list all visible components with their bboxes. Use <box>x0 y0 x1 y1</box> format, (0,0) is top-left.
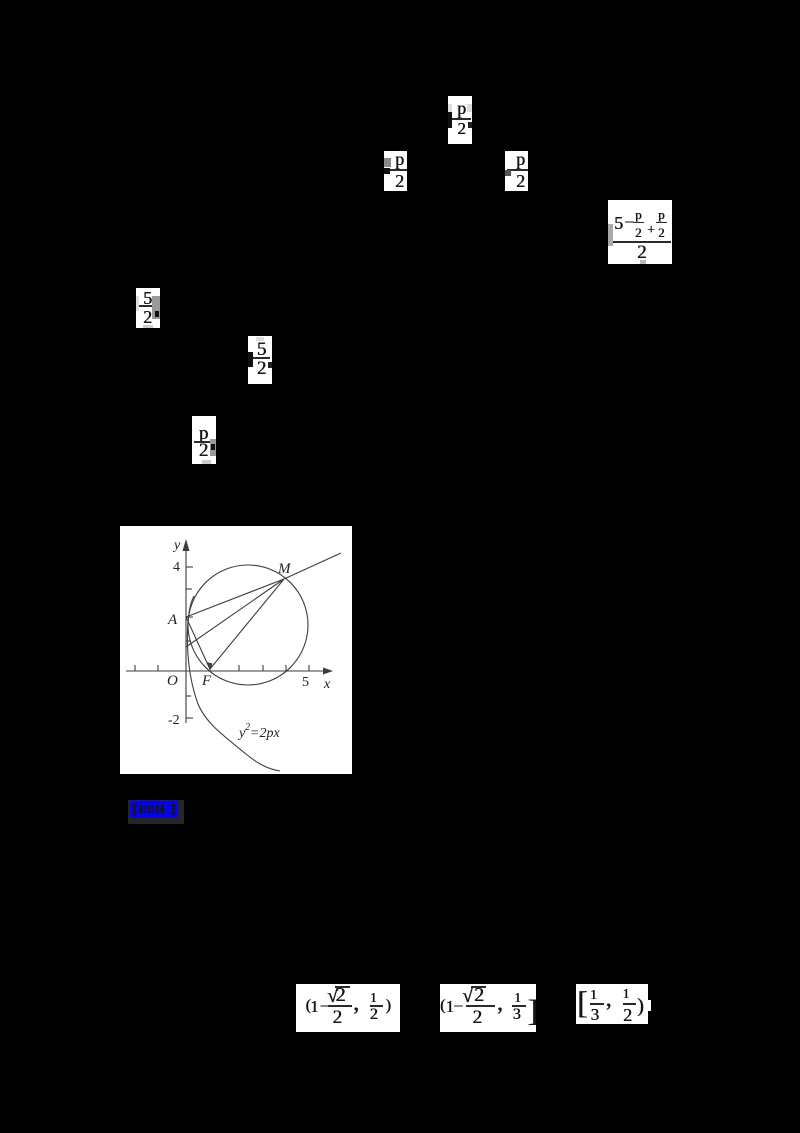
blue label <box>128 800 184 824</box>
svg-text:5: 5 <box>302 675 309 690</box>
fraction box p/2 (top) <box>448 96 472 144</box>
line F-M <box>210 579 284 669</box>
line (0,?) - M <box>186 579 284 647</box>
svg-text:F: F <box>201 673 212 689</box>
svg-text:x: x <box>323 677 331 692</box>
arrowheads <box>183 539 190 551</box>
fraction box 5/2 (second) <box>248 336 272 384</box>
sliver right of box 3 <box>648 1000 651 1011</box>
svg-text:M: M <box>277 561 292 577</box>
line A-F <box>186 617 209 667</box>
fraction box p/2 (lower) <box>192 416 216 464</box>
svg-text:=2px: =2px <box>250 726 280 741</box>
fraction box p/2 (right of pair) <box>505 151 528 191</box>
svg-text:O: O <box>167 673 178 689</box>
svg-text:4: 4 <box>173 560 180 575</box>
x ticks <box>134 665 136 671</box>
parabola <box>187 596 280 771</box>
bottom box 3: [1/3, 1/2) <box>576 984 648 1024</box>
x axis <box>126 670 331 672</box>
svg-text:-2: -2 <box>168 713 180 728</box>
fraction box p/2 (left of pair) <box>384 151 407 191</box>
ray M to corner <box>284 553 341 579</box>
fraction box 5/2 <box>136 288 160 328</box>
labels <box>167 538 331 741</box>
line A-M <box>186 579 284 617</box>
circle <box>188 565 308 685</box>
big fraction (5-p/2+p/2)/2 <box>608 200 672 264</box>
y axis <box>185 544 187 723</box>
bottom box 2: (1-sqrt2/2, 1/3] <box>440 984 536 1032</box>
bottom box 1: (1-sqrt2/2, 1/2) <box>296 984 400 1032</box>
FIGURE <box>120 526 352 774</box>
svg-text:A: A <box>167 612 178 628</box>
y ticks <box>186 566 193 568</box>
svg-text:y: y <box>172 538 181 553</box>
